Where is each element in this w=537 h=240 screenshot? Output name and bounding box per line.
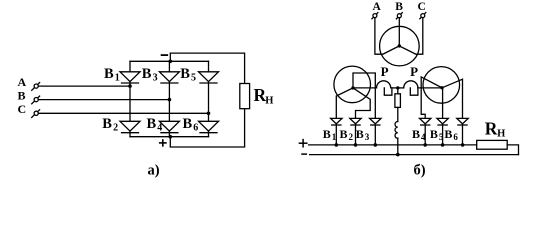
wire arm up-left to B4 — [421, 77, 442, 119]
svg-text:В: В — [102, 116, 112, 132]
label b) caption — [414, 163, 426, 179]
terminal A (input clamp) — [32, 83, 40, 91]
diode B5 (b) — [437, 118, 448, 144]
svg-text:В: В — [183, 116, 193, 132]
wire lead A to primary — [375, 18, 382, 55]
svg-text:б): б) — [414, 163, 426, 179]
svg-text:6: 6 — [193, 122, 198, 133]
label RN (circuit b) — [485, 119, 505, 140]
wire load to minus bus — [507, 145, 518, 155]
diode B6 — [199, 121, 219, 136]
node reactor midpoint — [396, 86, 399, 89]
svg-text:В: В — [18, 88, 26, 102]
reactor P (right) — [398, 81, 418, 95]
svg-text:Р: Р — [381, 64, 389, 79]
diode B6 (b) — [457, 118, 468, 144]
label B4 — [147, 116, 163, 133]
label phase C — [18, 102, 27, 116]
junction top bus / output — [169, 60, 173, 64]
secondary winding I (left circle) — [334, 66, 371, 103]
resistor (smoothing, midpoint branch) — [395, 88, 401, 108]
svg-text:5: 5 — [439, 132, 444, 142]
node secondary II star point — [440, 86, 443, 89]
diode B2 (b) — [350, 118, 361, 144]
wire top bus (negative) — [130, 60, 209, 62]
wire negative rail — [170, 53, 244, 83]
label B1 — [104, 66, 120, 83]
label B2 (b) — [340, 127, 354, 142]
svg-text:а): а) — [148, 163, 160, 179]
primary winding (three-phase, circle) — [380, 26, 420, 66]
wire arm up-right to B6 — [442, 79, 463, 118]
svg-text:В: В — [412, 127, 420, 141]
node primary star point — [398, 44, 401, 47]
svg-text:В: В — [104, 66, 114, 82]
svg-text:С: С — [418, 1, 426, 13]
svg-text:В: В — [430, 127, 438, 141]
svg-text:С: С — [18, 102, 27, 116]
wire column 3 middle — [208, 113, 210, 121]
wire positive rail — [170, 109, 244, 147]
wire arm down-left to B1 — [336, 88, 353, 119]
label B6 (b) — [444, 127, 458, 142]
label B2 — [102, 116, 118, 133]
diode B5 — [199, 61, 219, 113]
diode B1 (b) — [331, 118, 342, 144]
wire arm down to B5 — [442, 88, 444, 119]
svg-text:1: 1 — [332, 132, 337, 142]
junction node B / column 2 — [168, 98, 172, 102]
svg-text:Н: Н — [497, 129, 505, 140]
junction B2 on plus bus — [354, 143, 358, 147]
svg-text:В: В — [180, 66, 190, 82]
label B1 (b) — [323, 127, 337, 142]
label B6 — [183, 116, 199, 133]
svg-text:2: 2 — [113, 122, 118, 133]
svg-text:4: 4 — [157, 122, 162, 133]
wire column 2 middle — [168, 100, 170, 122]
junction B6 on plus bus — [461, 143, 465, 147]
junction bottom bus / output — [169, 135, 173, 139]
junction B5 on plus bus — [441, 143, 445, 147]
label B4 (b) — [412, 127, 426, 142]
resistor RN (load, circuit b) — [477, 140, 508, 149]
svg-text:Р: Р — [410, 64, 418, 79]
wire primary arm down-right — [399, 46, 417, 55]
node secondary I star point — [351, 86, 354, 89]
svg-text:Н: Н — [265, 96, 273, 107]
svg-text:3: 3 — [365, 132, 370, 142]
label B5 — [180, 66, 196, 83]
svg-text:3: 3 — [153, 72, 158, 83]
label phase A (b) — [373, 1, 382, 13]
wire minus bus (b) — [310, 154, 519, 156]
junction B1 on plus bus — [335, 143, 339, 147]
svg-text:В: В — [147, 116, 157, 132]
diode B2 — [120, 121, 140, 136]
label B5 (b) — [430, 127, 444, 142]
wire neutral I to reactor — [353, 87, 377, 89]
wire plus bus (b) — [309, 144, 477, 146]
terminal C (input clamp) — [32, 110, 40, 118]
wire phase B — [38, 99, 169, 101]
resistor RN (load, circuit a) — [240, 84, 250, 109]
junction B4 on plus bus — [423, 143, 427, 147]
wire arm down-right to B2 — [353, 88, 370, 119]
inductor (midpoint branch) — [395, 107, 398, 138]
svg-text:R: R — [485, 119, 498, 139]
wire phase A — [38, 85, 130, 87]
label minus (b) — [302, 153, 306, 155]
wire neutral II from reactor — [418, 87, 442, 89]
diode B3 — [159, 61, 179, 99]
terminal B (b) — [396, 13, 402, 19]
wire lead B to primary — [398, 18, 400, 46]
svg-text:1: 1 — [115, 72, 120, 83]
junction node C / column 3 — [207, 112, 211, 116]
wire arm up to B3 — [353, 73, 375, 118]
terminal B (input clamp) — [32, 96, 40, 104]
svg-text:5: 5 — [191, 72, 196, 83]
wire bottom bus (positive) — [130, 136, 209, 138]
secondary winding II (right circle) — [423, 67, 460, 104]
svg-text:В: В — [340, 127, 348, 141]
junction node A / column 1 — [128, 84, 132, 88]
label P (right reactor) — [410, 64, 418, 79]
diode B3 (b) — [370, 118, 381, 144]
svg-text:В: В — [395, 1, 403, 13]
label minus (top output) — [162, 54, 168, 56]
label RN (circuit a) — [254, 85, 274, 107]
svg-text:2: 2 — [349, 132, 354, 142]
svg-text:В: В — [142, 66, 152, 82]
svg-text:6: 6 — [453, 132, 458, 142]
label B3 (b) — [356, 127, 370, 142]
wire column 1 middle — [129, 86, 131, 121]
diode B1 — [120, 61, 140, 86]
svg-text:А: А — [373, 1, 382, 13]
label plus (bottom output) — [160, 140, 166, 146]
svg-text:4: 4 — [421, 132, 426, 142]
label phase C (b) — [418, 1, 426, 13]
wire midpoint to minus bus — [397, 138, 399, 154]
wire phase C — [38, 112, 208, 114]
label P (left reactor) — [381, 64, 389, 79]
label B3 — [142, 66, 158, 83]
terminal C (b) — [420, 13, 426, 19]
reactor P (left) — [377, 81, 398, 95]
label phase B — [18, 88, 26, 102]
diode B4 — [159, 121, 179, 136]
junction midpoint on minus bus — [396, 153, 400, 157]
svg-text:В: В — [444, 127, 452, 141]
svg-text:В: В — [323, 127, 331, 141]
label a) caption — [148, 163, 160, 179]
svg-text:В: В — [356, 127, 364, 141]
svg-text:А: А — [18, 75, 27, 89]
wire lead C to primary — [417, 18, 423, 55]
label plus (b) — [299, 140, 306, 147]
diode B4 (b) — [420, 118, 431, 144]
junction B3 on plus bus — [374, 143, 378, 147]
wire primary arm down-left — [382, 46, 399, 55]
label phase B (b) — [395, 1, 403, 13]
label phase A — [18, 75, 27, 89]
terminal A (b) — [372, 13, 378, 19]
